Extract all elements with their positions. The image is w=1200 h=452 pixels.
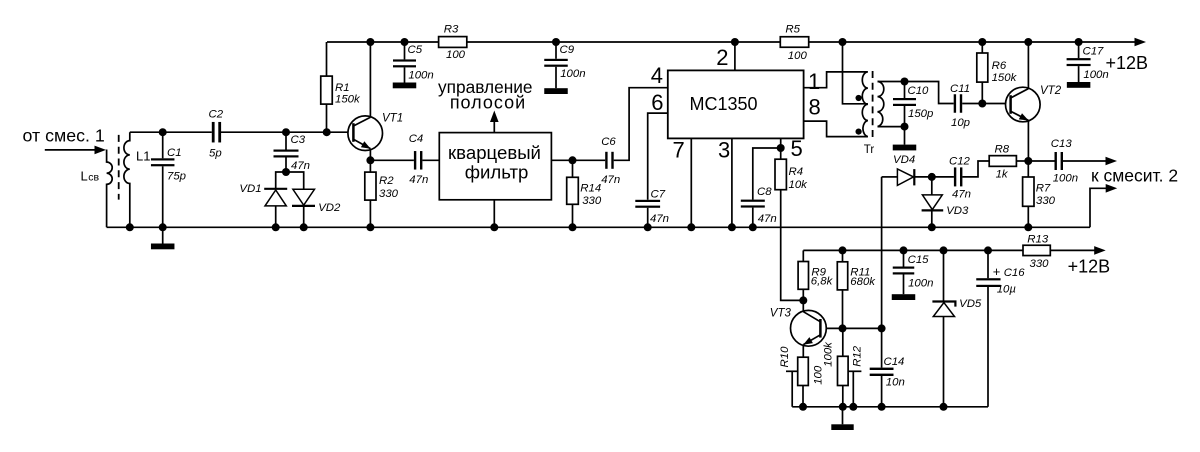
label C5 value bbox=[408, 70, 433, 82]
svg-text:150k: 150k bbox=[992, 72, 1018, 84]
pin number 5 bbox=[791, 136, 803, 161]
diode VD4 bbox=[897, 169, 914, 186]
node C3 top junction bbox=[282, 128, 290, 136]
wire +12V top rail bbox=[327, 41, 1136, 43]
label C15 value bbox=[908, 278, 933, 290]
wire C6 to pin4 bbox=[614, 88, 668, 161]
node C14 bottom bbox=[878, 403, 886, 411]
label 'к смесит. 2' bbox=[1091, 166, 1178, 186]
pin number 7 bbox=[673, 138, 685, 163]
label C11 value bbox=[951, 117, 970, 129]
R10 tap bbox=[786, 371, 798, 407]
svg-text:10k: 10k bbox=[789, 179, 809, 191]
resistor R2 bbox=[365, 160, 376, 227]
node VT2 emitter junction bbox=[1024, 157, 1032, 165]
diode VD3 bbox=[922, 177, 944, 227]
label C7 value bbox=[650, 213, 669, 225]
label R11 value bbox=[850, 276, 876, 288]
pin number 2 bbox=[716, 45, 728, 70]
label C4 value bbox=[409, 174, 428, 186]
wire R4 down to VT3 collector bbox=[781, 190, 804, 301]
node R6 bottom junction bbox=[978, 100, 986, 108]
capacitor C3 bbox=[274, 132, 299, 172]
diode VD1 bbox=[264, 189, 287, 228]
transistor VT2 bbox=[1006, 87, 1041, 122]
svg-text:C7: C7 bbox=[651, 189, 666, 201]
label R14 value bbox=[582, 195, 602, 207]
wire output ground return bbox=[1090, 188, 1107, 227]
label C16 plus bbox=[993, 264, 1001, 279]
resistor R6 bbox=[977, 42, 988, 104]
diode VD2 bbox=[292, 189, 315, 227]
wire VT1 collector bbox=[369, 42, 371, 117]
label R12 bbox=[851, 345, 863, 367]
capacitor C8 bbox=[741, 200, 765, 228]
svg-text:C9: C9 bbox=[560, 44, 575, 56]
wire pin1 to Tr bbox=[804, 72, 866, 88]
svg-text:47n: 47n bbox=[650, 213, 669, 225]
capacitor C13 bbox=[1028, 152, 1063, 170]
label R4 bbox=[789, 166, 804, 178]
svg-text:C8: C8 bbox=[757, 186, 772, 198]
band control arrow bbox=[490, 111, 499, 133]
label C8 value bbox=[758, 213, 777, 225]
capacitor C5 bbox=[393, 42, 416, 83]
pin number 3 bbox=[718, 138, 730, 163]
label 'управление' bbox=[438, 77, 533, 97]
svg-text:+: + bbox=[993, 264, 1001, 279]
label R10 value bbox=[813, 365, 825, 385]
svg-text:100n: 100n bbox=[408, 70, 433, 82]
svg-text:100n: 100n bbox=[1053, 173, 1078, 185]
node pin3 ground bbox=[728, 223, 736, 231]
label C2 bbox=[209, 109, 224, 121]
node R11 top bbox=[839, 246, 847, 254]
transformer core Tr bbox=[872, 71, 874, 138]
svg-text:VT1: VT1 bbox=[382, 113, 403, 125]
svg-text:10µ: 10µ bbox=[997, 284, 1017, 296]
label VD3 bbox=[946, 205, 969, 217]
output arrow top bbox=[1106, 157, 1118, 166]
svg-text:L1: L1 bbox=[136, 149, 150, 164]
wire VT3 emitter bbox=[802, 345, 804, 358]
svg-text:R10: R10 bbox=[779, 346, 791, 368]
label VD1 bbox=[239, 183, 261, 195]
zener diode VD5 bbox=[932, 250, 955, 406]
node VD3 top junction bbox=[928, 173, 936, 181]
label C17 bbox=[1083, 46, 1105, 58]
svg-text:C6: C6 bbox=[601, 136, 616, 148]
transformer Tr secondary winding bbox=[878, 82, 884, 127]
label C9 value bbox=[560, 68, 585, 80]
label C12 bbox=[949, 156, 971, 168]
resistor R14 bbox=[567, 160, 579, 227]
svg-text:100n: 100n bbox=[908, 278, 933, 290]
capacitor C14 bbox=[870, 328, 894, 406]
label C2 value bbox=[209, 148, 222, 160]
power arrow +12V bottom bbox=[1094, 246, 1106, 255]
label R2 value bbox=[379, 188, 399, 200]
svg-text:100n: 100n bbox=[560, 68, 585, 80]
capacitor C10 bbox=[893, 82, 916, 127]
svg-text:C17: C17 bbox=[1083, 46, 1105, 58]
label input 'от смес. 1' bbox=[23, 125, 105, 145]
wire base to VD4 line bbox=[843, 327, 882, 329]
label C12 value bbox=[952, 189, 971, 201]
label C16 bbox=[1004, 267, 1026, 279]
node L1 bottom junction bbox=[126, 223, 134, 231]
node C10 bottom bbox=[901, 123, 909, 131]
node VT1 emitter junction bbox=[366, 156, 374, 164]
label R13 value bbox=[1030, 258, 1050, 270]
svg-text:C2: C2 bbox=[209, 109, 224, 121]
resistor R5 bbox=[780, 37, 808, 48]
inductor Lcb primary winding bbox=[107, 150, 113, 228]
svg-text:75p: 75p bbox=[167, 171, 186, 183]
Tr polarity dot upper bbox=[856, 95, 862, 101]
label VD2 bbox=[318, 202, 341, 214]
label VT3 bbox=[770, 308, 792, 320]
svg-text:47n: 47n bbox=[409, 174, 428, 186]
capacitor C11 bbox=[954, 94, 963, 113]
pin number 6 bbox=[651, 90, 663, 115]
capacitor C6 bbox=[605, 152, 614, 169]
wire AGC bottom bbox=[792, 406, 988, 408]
block quartz filter bbox=[439, 133, 551, 200]
resistor R12 bbox=[838, 328, 849, 406]
svg-text:кварцевый: кварцевый bbox=[448, 142, 541, 163]
svg-text:680k: 680k bbox=[850, 276, 876, 288]
power arrow +12V top bbox=[1135, 38, 1147, 47]
wire C11 to VT2 base bbox=[962, 103, 1005, 105]
label VD5 bbox=[959, 298, 982, 310]
node R6 top rail bbox=[978, 38, 986, 46]
label 'полосой' bbox=[450, 93, 526, 113]
resistor R7 bbox=[1023, 161, 1034, 227]
wire pin2 bbox=[734, 42, 736, 70]
label C6 bbox=[601, 136, 616, 148]
svg-text:5p: 5p bbox=[209, 148, 222, 160]
svg-text:100: 100 bbox=[788, 50, 808, 62]
node VD5 bottom bbox=[940, 403, 948, 411]
label C3 value bbox=[291, 160, 310, 172]
label R2 bbox=[379, 175, 394, 187]
capacitor C1 bbox=[151, 132, 175, 227]
wire VT2 collector bbox=[1027, 42, 1029, 89]
svg-text:6,8k: 6,8k bbox=[811, 276, 834, 288]
svg-text:1: 1 bbox=[808, 69, 820, 94]
transformer core (input) bbox=[118, 135, 120, 200]
ground bottom bbox=[831, 407, 853, 430]
svg-text:100n: 100n bbox=[1083, 69, 1108, 81]
wire VD4 to junction bbox=[914, 176, 932, 178]
ground under C9 bbox=[544, 88, 568, 94]
node filter ground bbox=[490, 223, 498, 231]
svg-text:R13: R13 bbox=[1027, 234, 1049, 246]
svg-text:VD3: VD3 bbox=[946, 205, 969, 217]
svg-text:R14: R14 bbox=[580, 183, 601, 195]
node pin7 ground bbox=[687, 223, 695, 231]
label C11 bbox=[950, 83, 970, 95]
svg-text:R7: R7 bbox=[1036, 183, 1051, 195]
svg-text:C15: C15 bbox=[908, 254, 930, 266]
svg-text:100: 100 bbox=[446, 49, 466, 61]
wire pin8 to Tr bbox=[804, 121, 866, 137]
wire pin5 to C8 bbox=[753, 148, 781, 200]
label 'кварцевый' bbox=[448, 142, 541, 163]
svg-text:Tr: Tr bbox=[864, 144, 875, 156]
node C15 top bbox=[900, 246, 908, 254]
node VT1 collector rail bbox=[366, 38, 374, 46]
capacitor C2 bbox=[212, 122, 221, 143]
transistor VT1 bbox=[348, 116, 383, 151]
label R7 bbox=[1036, 183, 1051, 195]
wire +12V sub rail bbox=[803, 249, 1095, 251]
svg-text:VD2: VD2 bbox=[318, 202, 341, 214]
output arrow bottom bbox=[1106, 184, 1118, 193]
wire pin6 bbox=[648, 113, 668, 200]
label Tr bbox=[864, 144, 875, 156]
pin number 1 bbox=[808, 69, 820, 94]
label R4 value bbox=[789, 179, 809, 191]
label R14 bbox=[580, 183, 601, 195]
node pin5 junction bbox=[777, 144, 785, 152]
svg-text:C1: C1 bbox=[167, 147, 182, 159]
op-amp U1 MC1350 body bbox=[668, 70, 804, 138]
svg-text:2: 2 bbox=[716, 45, 728, 70]
svg-text:от смес. 1: от смес. 1 bbox=[23, 125, 105, 145]
node R10 bottom bbox=[799, 403, 807, 411]
svg-text:150k: 150k bbox=[335, 94, 361, 106]
svg-text:47n: 47n bbox=[758, 213, 777, 225]
label C4 bbox=[409, 133, 424, 145]
label C8 bbox=[757, 186, 772, 198]
label C17 value bbox=[1083, 69, 1108, 81]
node C16 top bbox=[984, 246, 992, 254]
wire C4 to filter bbox=[422, 159, 439, 161]
node R14 bottom bbox=[569, 223, 577, 231]
label VD4 bbox=[893, 154, 915, 166]
node VD1 bottom bbox=[272, 223, 280, 231]
label C15 bbox=[908, 254, 930, 266]
wire R8 to junction bbox=[1016, 160, 1028, 162]
node C1 top junction bbox=[159, 128, 167, 136]
wire input arrow line bbox=[45, 149, 97, 151]
label R5 bbox=[785, 24, 800, 36]
svg-text:3: 3 bbox=[718, 138, 730, 163]
svg-text:VT2: VT2 bbox=[1040, 85, 1062, 97]
node C1 bottom junction bbox=[159, 223, 167, 231]
label C13 bbox=[1051, 138, 1073, 150]
pin number 4 bbox=[651, 63, 663, 88]
svg-text:R2: R2 bbox=[379, 175, 394, 187]
node VD4-C14 junction bbox=[878, 324, 886, 332]
svg-text:6: 6 bbox=[651, 90, 663, 115]
svg-text:C13: C13 bbox=[1051, 138, 1073, 150]
label C9 bbox=[560, 44, 575, 56]
svg-text:+12В: +12В bbox=[1106, 53, 1149, 73]
resistor R11 bbox=[837, 250, 847, 328]
node R14 top junction bbox=[569, 156, 577, 164]
svg-text:330: 330 bbox=[582, 195, 602, 207]
capacitor C17 bbox=[1067, 42, 1091, 82]
label C14 bbox=[884, 356, 905, 368]
resistor R13 bbox=[1023, 245, 1050, 255]
node C7 bottom bbox=[644, 223, 652, 231]
label R9 bbox=[811, 266, 826, 278]
label R9 value bbox=[811, 276, 834, 288]
svg-text:1k: 1k bbox=[996, 169, 1009, 181]
node C10 top bbox=[901, 78, 909, 86]
svg-text:C10: C10 bbox=[908, 85, 930, 97]
ground under C1 bbox=[151, 227, 175, 249]
svg-text:330: 330 bbox=[1036, 195, 1056, 207]
resistor R9 bbox=[798, 250, 808, 300]
svg-text:R6: R6 bbox=[992, 60, 1007, 72]
label C14 value bbox=[886, 377, 905, 389]
svg-text:L: L bbox=[81, 169, 88, 184]
svg-text:R3: R3 bbox=[444, 24, 459, 36]
svg-text:C4: C4 bbox=[409, 133, 424, 145]
resistor R8 bbox=[989, 156, 1016, 167]
label R3 bbox=[444, 24, 459, 36]
label +12V (bottom) bbox=[1068, 256, 1111, 276]
label 'фильтр' bbox=[465, 161, 529, 182]
transformer Tr primary winding bbox=[862, 72, 868, 137]
node R12 bottom bbox=[839, 403, 847, 411]
wire VT3 base bbox=[826, 327, 842, 329]
ground under C10 bbox=[893, 127, 917, 151]
node VT3 collector junction bbox=[799, 296, 807, 304]
node R12 tap bottom bbox=[849, 403, 857, 411]
svg-text:100k: 100k bbox=[823, 341, 835, 367]
svg-text:св: св bbox=[88, 172, 99, 184]
label R10 bbox=[779, 346, 791, 368]
node VT3 base junction bbox=[839, 324, 847, 332]
node VD2 bottom bbox=[300, 223, 308, 231]
transistor VT3 bbox=[791, 310, 827, 346]
wire Tr secondary top to C10 bbox=[878, 81, 905, 83]
wire C12 to R8 bbox=[962, 161, 989, 177]
wire VT2 emitter bbox=[1027, 120, 1029, 161]
node C8 bottom bbox=[749, 223, 757, 231]
wire pin7 to ground bbox=[690, 138, 692, 227]
svg-text:C5: C5 bbox=[408, 44, 423, 56]
svg-text:VT3: VT3 bbox=[770, 308, 792, 320]
capacitor C9 bbox=[544, 42, 568, 88]
ground under C15 bbox=[892, 294, 916, 300]
svg-text:C16: C16 bbox=[1004, 267, 1026, 279]
label +12V (top) bbox=[1106, 53, 1149, 73]
resistor R4 bbox=[775, 148, 786, 190]
wire C13 to output bbox=[1063, 160, 1107, 162]
svg-text:C3: C3 bbox=[291, 134, 306, 146]
wire signal line C2-VT1 bbox=[220, 131, 348, 133]
label C1 bbox=[167, 147, 182, 159]
svg-text:4: 4 bbox=[651, 63, 663, 88]
svg-text:MC1350: MC1350 bbox=[689, 94, 757, 114]
wire ground rail bbox=[107, 226, 1090, 228]
wire junction to C13 bbox=[1028, 160, 1054, 162]
label R7 value bbox=[1036, 195, 1056, 207]
label C5 bbox=[408, 44, 423, 56]
svg-text:8: 8 bbox=[809, 95, 821, 120]
svg-text:+12В: +12В bbox=[1068, 256, 1111, 276]
label C10 value bbox=[908, 108, 933, 120]
label C7 bbox=[651, 189, 666, 201]
wire pin3 to ground bbox=[731, 138, 733, 227]
capacitor C4 bbox=[414, 151, 423, 170]
wire VT1 emitter bbox=[369, 149, 371, 161]
label R13 bbox=[1027, 234, 1049, 246]
node C9 junction bbox=[552, 38, 560, 46]
svg-text:47n: 47n bbox=[952, 189, 971, 201]
node R2 bottom bbox=[366, 223, 374, 231]
svg-text:полосой: полосой bbox=[450, 93, 526, 113]
wire diode bracket bbox=[276, 172, 304, 189]
ground under C5 bbox=[393, 83, 417, 89]
svg-text:330: 330 bbox=[1030, 258, 1050, 270]
label VT2 bbox=[1040, 85, 1062, 97]
svg-text:10p: 10p bbox=[951, 117, 970, 129]
resistor R10 bbox=[798, 357, 809, 407]
capacitor C12 bbox=[932, 167, 963, 186]
node VD5 top bbox=[940, 246, 948, 254]
label C13 value bbox=[1053, 173, 1078, 185]
ground under C17 bbox=[1067, 82, 1091, 88]
svg-text:R1: R1 bbox=[335, 82, 350, 94]
input arrow head bbox=[95, 146, 107, 155]
node R7 bottom bbox=[1024, 223, 1032, 231]
inductor L1 secondary winding bbox=[124, 132, 130, 227]
label Lcb bbox=[81, 169, 100, 184]
svg-text:C12: C12 bbox=[949, 156, 971, 168]
capacitor C16 electrolytic bbox=[976, 250, 1000, 406]
wire VT1 emitter to C4 bbox=[370, 159, 414, 161]
svg-text:100: 100 bbox=[813, 365, 825, 385]
svg-text:фильтр: фильтр bbox=[465, 161, 529, 182]
svg-text:5: 5 bbox=[791, 136, 803, 161]
label R1 value bbox=[335, 94, 361, 106]
wire Tr center tap bbox=[843, 42, 868, 104]
node VT2 collector rail bbox=[1024, 38, 1032, 46]
svg-text:7: 7 bbox=[673, 138, 685, 163]
label R5 value bbox=[788, 50, 808, 62]
capacitor C15 bbox=[893, 250, 915, 294]
label R11 bbox=[850, 266, 870, 278]
resistor R3 bbox=[439, 37, 467, 48]
label R3 value bbox=[446, 49, 466, 61]
wire pin5 bbox=[780, 138, 782, 148]
label R6 bbox=[992, 60, 1007, 72]
svg-text:10n: 10n bbox=[886, 377, 905, 389]
label R6 value bbox=[992, 72, 1018, 84]
label R8 value bbox=[996, 169, 1009, 181]
svg-text:C14: C14 bbox=[884, 356, 905, 368]
Tr polarity dot lower bbox=[856, 129, 862, 135]
svg-text:R5: R5 bbox=[785, 24, 800, 36]
label C1 value bbox=[167, 171, 186, 183]
R12 tap bbox=[848, 371, 861, 407]
label C3 bbox=[291, 134, 306, 146]
label L1 bbox=[136, 149, 150, 164]
node rail-Tr junction bbox=[839, 38, 847, 46]
svg-text:VD5: VD5 bbox=[959, 298, 982, 310]
label MC1350 bbox=[689, 94, 757, 114]
svg-text:150p: 150p bbox=[908, 108, 933, 120]
svg-text:к смесит. 2: к смесит. 2 bbox=[1091, 166, 1178, 186]
wire VD4 left bbox=[882, 176, 898, 178]
